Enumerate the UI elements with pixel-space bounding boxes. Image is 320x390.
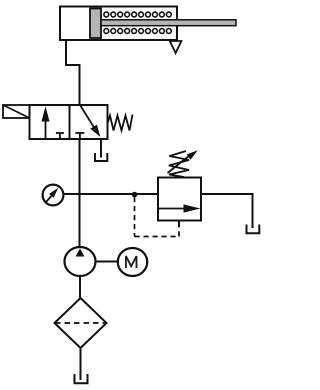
- wire main supply line: [79, 139, 81, 247]
- relief valve body: [158, 178, 201, 221]
- cylinder body: [60, 7, 177, 41]
- motor M1: [118, 248, 147, 276]
- tank T3 bottom: [75, 374, 88, 383]
- relief valve adjustment arrow: [168, 150, 198, 173]
- valve right box diagonal arrow: [80, 106, 100, 137]
- cylinder spring coils top row: [104, 12, 171, 17]
- wire filter to tank: [80, 348, 82, 380]
- junction dot: [132, 192, 138, 198]
- relief valve pilot line (dashed): [135, 197, 180, 237]
- valve return spring: [108, 115, 133, 131]
- tank T1 under valve: [95, 153, 107, 161]
- cylinder spring coils bottom row: [104, 29, 171, 34]
- relief valve spring: [169, 151, 189, 177]
- valve left box flow arrow: [42, 106, 50, 139]
- pump P1: [65, 247, 96, 276]
- wire cylinder to valve: [66, 40, 80, 105]
- relief valve internal arrow: [158, 204, 201, 212]
- cylinder vent triangle: [170, 41, 182, 53]
- wire relief valve to tank: [201, 194, 253, 228]
- wire pump to motor: [96, 261, 119, 263]
- valve right box blocked port T: [75, 133, 84, 139]
- filter element (dashed): [55, 322, 106, 324]
- piston: [90, 9, 101, 39]
- valve V1 left box: [30, 105, 70, 139]
- piston rod: [101, 20, 236, 26]
- filter F1: [55, 298, 107, 348]
- relief valve bottom stub: [178, 221, 180, 227]
- pressure gauge: [43, 185, 64, 206]
- lever actuator: [3, 105, 30, 118]
- wire valve tank port: [100, 139, 102, 158]
- wire gauge to main line: [63, 193, 79, 195]
- valve V1 right box: [70, 105, 108, 139]
- valve left box blocked port T: [56, 133, 64, 139]
- wire main line to relief valve: [80, 193, 159, 195]
- wire pump to filter: [79, 276, 81, 298]
- tank T2 right: [247, 225, 260, 234]
